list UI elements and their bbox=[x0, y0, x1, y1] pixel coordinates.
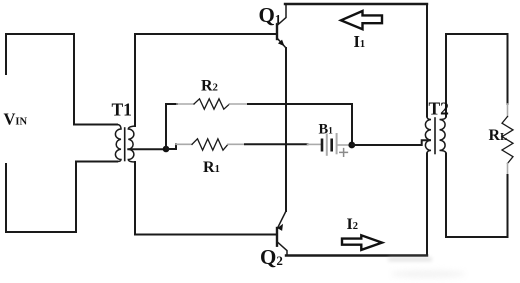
wire emitters vertical bbox=[285, 48, 287, 211]
battery B1 left lead bbox=[308, 143, 321, 145]
resistor R1 right lead bbox=[228, 143, 245, 145]
transformer T2 secondary winding bbox=[440, 117, 447, 154]
battery B1 plus sign bbox=[340, 149, 348, 157]
wire VIN right lower vertical bbox=[75, 162, 77, 233]
svg-text:I2: I2 bbox=[347, 216, 358, 233]
transistor Q1 emitter bbox=[277, 38, 286, 48]
wire VIN bottom bbox=[6, 231, 76, 233]
wire RL top vertical bbox=[507, 34, 509, 104]
resistor R1 bbox=[192, 139, 228, 150]
transformer T1 core bbox=[124, 128, 126, 161]
wire T1 secondary bottom lead to Q2 base bbox=[135, 162, 276, 235]
transformer T1 secondary winding bbox=[128, 126, 135, 162]
node battery positive junction bbox=[348, 142, 355, 149]
transformer T2 primary winding bbox=[425, 117, 431, 154]
resistor RL top lead bbox=[507, 104, 509, 117]
node center tap junction bbox=[163, 146, 170, 153]
artifact faint smudge lower right bbox=[390, 270, 466, 278]
wire VIN top bbox=[6, 33, 74, 35]
wire bottom rail bbox=[286, 254, 427, 256]
resistor RL bottom lead bbox=[507, 164, 509, 176]
wire R2 to battery node bbox=[248, 103, 352, 105]
wire R1 to battery bbox=[245, 143, 308, 145]
resistor R1 left lead bbox=[176, 143, 192, 145]
wire battery to T2 center tap bbox=[352, 140, 430, 145]
wire T2 primary bottom lead bbox=[426, 154, 428, 256]
wire T1 primary top lead bbox=[74, 124, 117, 126]
battery B1 right lead bbox=[338, 144, 350, 146]
transistor Q1 base bar bbox=[276, 25, 278, 39]
wire RL bottom vertical bbox=[507, 175, 509, 237]
wire R2 left stub bbox=[166, 103, 177, 105]
wire VIN left lower vertical bbox=[5, 164, 7, 232]
wire VIN right upper vertical bbox=[73, 34, 75, 125]
svg-text:R2: R2 bbox=[201, 77, 218, 94]
battery B1 plate short 2 bbox=[330, 140, 333, 150]
transformer T1 primary winding bbox=[115, 125, 121, 162]
wire VIN left upper vertical bbox=[5, 34, 7, 74]
resistor R2 left lead bbox=[177, 103, 194, 105]
wire top rail bbox=[285, 3, 427, 5]
svg-text:R1: R1 bbox=[203, 159, 220, 176]
svg-text:VIN: VIN bbox=[4, 110, 28, 129]
battery B1 plate long 2 bbox=[336, 134, 338, 153]
transistor Q1 emitter arrowhead bbox=[278, 40, 287, 49]
svg-text:B1: B1 bbox=[319, 122, 334, 138]
transistor Q2 emitter bbox=[277, 211, 286, 229]
wire battery node drop bbox=[351, 104, 353, 145]
transformer T2 core bbox=[434, 118, 436, 154]
resistor RL bbox=[502, 117, 513, 164]
transistor Q2 base bar bbox=[276, 228, 278, 246]
svg-text:Q2: Q2 bbox=[260, 245, 283, 269]
transistor Q1 collector bbox=[277, 4, 286, 26]
arrow I2 bbox=[342, 235, 382, 250]
wire R1 left stub bbox=[166, 144, 176, 149]
resistor R2 bbox=[194, 99, 230, 109]
wire T1 secondary top lead to Q1 base bbox=[135, 34, 276, 126]
svg-text:T2: T2 bbox=[429, 99, 449, 119]
resistor R2 right lead bbox=[230, 103, 249, 105]
svg-text:I1: I1 bbox=[354, 32, 366, 51]
wire bias riser bbox=[165, 104, 167, 149]
wire RL top rail bbox=[446, 33, 508, 35]
wire T1 secondary center tap bbox=[128, 148, 166, 150]
svg-text:T1: T1 bbox=[112, 100, 132, 120]
arrow I1 bbox=[341, 11, 382, 29]
transistor Q2 emitter arrowhead bbox=[277, 222, 285, 231]
svg-text:RL: RL bbox=[489, 127, 508, 144]
wire T2 secondary top lead bbox=[445, 34, 447, 117]
artifact smudge under bottom rail bbox=[388, 257, 432, 262]
battery B1 plate short 1 bbox=[321, 140, 324, 150]
wire T2 secondary bottom lead bbox=[445, 154, 447, 238]
transistor Q2 collector bbox=[277, 242, 287, 256]
wire T2 primary top lead bbox=[426, 4, 428, 117]
svg-text:Q1: Q1 bbox=[259, 3, 282, 27]
battery B1 plate long 1 bbox=[326, 135, 328, 155]
wire RL bottom rail bbox=[446, 236, 508, 238]
wire T1 primary bottom lead bbox=[76, 161, 117, 163]
